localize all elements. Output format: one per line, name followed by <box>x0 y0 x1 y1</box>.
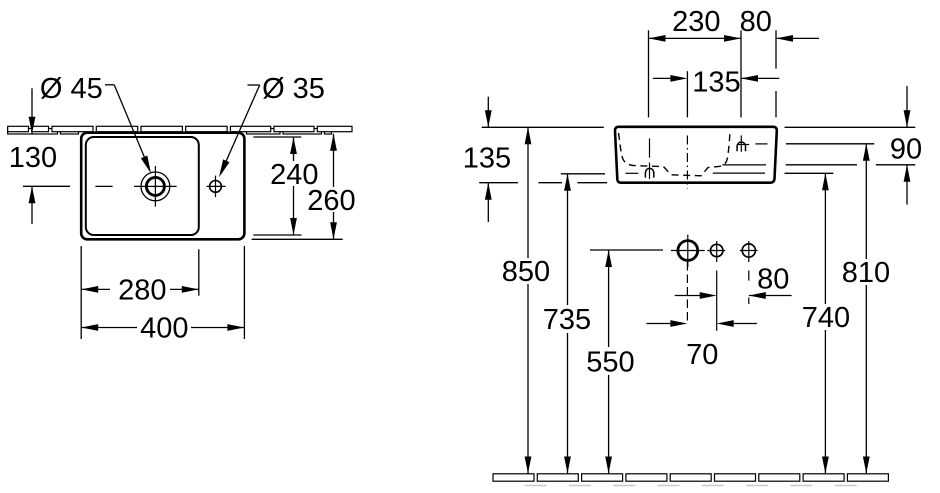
svg-text:135: 135 <box>692 66 740 98</box>
dimension 280 <box>81 288 110 290</box>
svg-text:130: 130 <box>9 142 57 174</box>
extension line inner bowl top, right <box>253 136 301 138</box>
front view: extension lines above body <box>648 30 650 117</box>
basin inner bowl (top view) <box>86 137 199 235</box>
dimension 80 (lower) <box>675 295 700 297</box>
ext line bottom edge, left side <box>479 182 518 184</box>
leader line for Ø 45 <box>105 84 114 86</box>
wall outlet group: supply/drain level ext line <box>590 249 663 251</box>
floor tile band row 2 hint (faint) <box>525 485 857 487</box>
fixing hook right <box>737 142 745 151</box>
right hook crosshair <box>738 144 750 146</box>
ext line hook level, left <box>561 173 605 175</box>
dimension 90 <box>906 86 908 127</box>
faucet hole Ø35 (top view) <box>210 181 222 193</box>
drain outlet circle <box>678 241 698 261</box>
dimension 400 <box>81 327 137 329</box>
svg-text:810: 810 <box>842 257 890 289</box>
dimension 230 <box>649 37 742 39</box>
left fixing hole axis inside body <box>649 139 651 158</box>
dimension 850 <box>527 127 529 258</box>
svg-text:90: 90 <box>890 134 922 166</box>
dimension 550 <box>608 250 610 347</box>
svg-text:230: 230 <box>672 6 720 38</box>
svg-text:260: 260 <box>307 185 355 217</box>
svg-text:80: 80 <box>740 6 772 38</box>
faucet hole crosshair <box>207 185 226 187</box>
extension lines left of body <box>482 126 604 128</box>
dimension 735 <box>567 174 569 305</box>
wall tile band row 1 (upper course, top view) <box>8 126 352 131</box>
dimension 135 (left) <box>487 97 489 128</box>
verticals below outlet group <box>686 262 688 324</box>
svg-text:Ø 35: Ø 35 <box>262 73 325 105</box>
leader line for Ø 35 <box>248 84 260 86</box>
svg-text:70: 70 <box>686 339 718 371</box>
centerline dash left of bowl <box>95 185 112 187</box>
inner feature line: left hook level <box>713 172 765 174</box>
svg-text:735: 735 <box>543 304 591 336</box>
dash right of right hook <box>755 143 767 145</box>
supply hole left <box>711 244 723 256</box>
wall tile band row 2 (lower course, top view) <box>8 129 332 135</box>
drain crosshair <box>134 185 177 187</box>
supply hole right <box>742 244 755 257</box>
svg-text:740: 740 <box>802 302 850 334</box>
extension lines below basin <box>80 246 82 339</box>
extension line basin bottom, right <box>252 238 343 240</box>
basin outer rim (top view) <box>81 133 244 240</box>
dimension 130 <box>31 88 33 134</box>
extension lines right of body <box>785 126 916 128</box>
drain Ø45 thick ring <box>146 177 164 195</box>
dimension 810 <box>865 144 867 259</box>
drain outlet crosshair <box>671 250 705 252</box>
floor tile band row 1 (upper course) <box>493 474 888 481</box>
svg-text:135: 135 <box>463 143 511 175</box>
svg-text:Ø 45: Ø 45 <box>40 73 103 105</box>
svg-text:850: 850 <box>502 256 550 288</box>
extension line bowl bottom, right <box>253 234 301 236</box>
drain center dot <box>154 185 156 187</box>
basin body (front view) <box>615 127 777 183</box>
drain axis centerline (dash-dot) <box>686 136 688 189</box>
dimension 135 (top) <box>653 77 671 79</box>
hidden bowl outline (dashed, front view) <box>619 133 730 176</box>
svg-text:550: 550 <box>586 347 634 379</box>
dimension 70 <box>646 323 670 325</box>
drain Ø45 (top view): outer circle <box>141 172 170 201</box>
dimension 80 (top) <box>776 37 819 39</box>
right hook axis <box>740 135 742 151</box>
inner feature line: rear bottom edge <box>722 164 766 166</box>
dimension 740 <box>824 173 826 304</box>
svg-text:400: 400 <box>140 313 188 345</box>
dimension 240 <box>293 137 295 161</box>
svg-text:80: 80 <box>757 264 789 296</box>
svg-text:280: 280 <box>118 275 166 307</box>
dash left of left hook <box>626 172 639 174</box>
dimension 260 <box>333 134 335 187</box>
fixing hook left <box>645 168 653 177</box>
